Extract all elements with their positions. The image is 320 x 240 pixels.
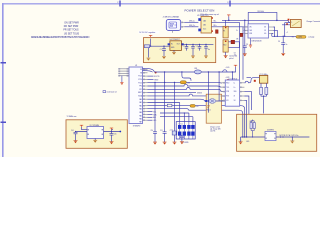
svg-text:C9: C9 [278, 41, 280, 43]
power mux U3 [248, 24, 269, 38]
svg-text:C14: C14 [71, 130, 74, 132]
MCU U1 [129, 67, 143, 124]
net flag pill +CHG [296, 36, 306, 39]
ground under C11 [163, 142, 167, 145]
svg-text:+2: +2 [286, 32, 288, 34]
svg-text:reset boot sel: reset boot sel [107, 91, 118, 94]
svg-text:D+: D+ [234, 87, 236, 89]
svg-text:VDD: VDD [234, 91, 237, 93]
svg-text:DO SET PWR: DO SET PWR [64, 26, 79, 28]
ground under C1 [162, 56, 166, 59]
USB bridge U2 [225, 80, 239, 106]
svg-text:VD: VD [140, 69, 142, 71]
cap C8 on VBUS [243, 20, 247, 54]
comparator Q1 [209, 99, 216, 104]
svg-text:PR SET TOUS: PR SET TOUS [63, 29, 79, 31]
VBUS top wire [222, 20, 290, 22]
cap column drops [155, 72, 191, 132]
svg-text:C10: C10 [151, 130, 154, 132]
svg-text:PC15: PC15 [138, 82, 142, 84]
+5V flag red [234, 65, 237, 67]
svg-text:4u7: 4u7 [234, 54, 237, 56]
svg-text:C4: C4 [196, 45, 198, 47]
U3 left pins [244, 27, 248, 34]
svg-text:+5V0: +5V0 [226, 67, 230, 69]
wire USB D+ [185, 26, 199, 28]
svg-text:PC14: PC14 [138, 79, 142, 81]
svg-text:OUT: OUT [177, 44, 180, 46]
power flag red in osc box [80, 125, 83, 127]
resistor R2 pill [180, 81, 186, 84]
svg-text:GND: GND [246, 141, 249, 143]
ground under R10 [225, 52, 227, 56]
charge connector J2 [290, 20, 301, 28]
wire D+ down to U2 [242, 27, 244, 80]
fuse F1 [223, 26, 228, 38]
svg-text:F1: F1 [223, 31, 225, 33]
svg-text:PC13: PC13 [138, 76, 142, 78]
U3 output wires [272, 27, 296, 36]
reset note label [103, 91, 106, 93]
svg-text:10u: 10u [208, 49, 211, 51]
ground right in servo box [291, 137, 293, 141]
svg-text:R5 0.1: R5 0.1 [207, 110, 211, 112]
svg-text:RTS: RTS [226, 96, 229, 98]
wire X2 right [104, 130, 120, 132]
wire U6 out [276, 136, 309, 138]
feedback loop R8 [248, 12, 277, 23]
crystal Y1 [259, 75, 267, 83]
fuse red marks [225, 27, 227, 28]
header cluster drops [148, 103, 193, 122]
svg-text:C8: C8 [246, 44, 248, 46]
wire VIN down [150, 39, 152, 47]
svg-text:USB_D-: USB_D- [189, 21, 195, 23]
short stub wires with labels [148, 75, 154, 77]
+5V rail wire [154, 67, 235, 80]
U2 left pins [221, 83, 226, 101]
svg-text:R6R7: R6R7 [250, 121, 254, 123]
comparator wires [205, 100, 226, 102]
sheet background [0, 0, 320, 157]
servo wires into box [241, 114, 265, 137]
red flag near box top [251, 118, 254, 120]
svg-text:+: + [241, 139, 242, 141]
wire VIN to D1 stub [147, 48, 149, 58]
VIN power flag red [149, 35, 152, 37]
header J3 2x4 [176, 122, 195, 139]
notes text block [31, 22, 90, 39]
wire U1 TX to U2 [148, 84, 226, 87]
svg-text:J3 SWD: J3 SWD [183, 142, 189, 144]
input diode D1 [144, 45, 149, 48]
svg-text:SWDIO: SWDIO [197, 93, 203, 95]
wire servo sig 2 [148, 109, 243, 137]
wire input rail [150, 45, 170, 47]
cap C3 [191, 44, 195, 56]
USB pin stubs [173, 22, 185, 33]
cap C4 [198, 44, 202, 50]
svg-text:220: 220 [196, 106, 199, 108]
wire charge into J2 [282, 23, 290, 37]
svg-text:2B 5: 2B 5 [203, 25, 206, 27]
svg-text:3C 4: 3C 4 [203, 29, 206, 31]
svg-text:ON SET PWR: ON SET PWR [64, 22, 79, 24]
wire D- out [212, 21, 240, 23]
crystal red mark [254, 80, 256, 82]
svg-text:TXD: TXD [226, 87, 229, 89]
3V3 rail wire [148, 82, 222, 83]
svg-text:MAKE SURE USB REGULATOR PHOTO: MAKE SURE USB REGULATOR PHOTO PIN THE OU… [31, 36, 90, 39]
cap C10 [153, 132, 157, 142]
ground under C15 [110, 142, 114, 145]
svg-text:RXD: RXD [226, 82, 229, 84]
USB connector J1 [166, 19, 180, 30]
svg-text:+C12: +C12 [170, 130, 174, 132]
svg-text:US SET TOUS: US SET TOUS [64, 33, 80, 35]
cap C1 [162, 46, 166, 56]
wire U2 XI to crystal [244, 77, 259, 82]
U1 top-right loop to +5V [143, 68, 155, 72]
oscillator section box [66, 120, 127, 149]
U2 pin names [226, 82, 236, 102]
load cap CL1 [260, 87, 263, 94]
U1 left top pins [120, 69, 130, 76]
out ticks [281, 136, 283, 138]
svg-text:C2: C2 [183, 45, 185, 47]
regulator U4 [170, 41, 182, 51]
wire USB D- [185, 21, 199, 23]
border zone tick left 1 [1, 62, 7, 64]
load cap CL2 [265, 87, 268, 94]
svg-text:C8: C8 [234, 53, 236, 55]
ground under C9 [281, 53, 285, 56]
svg-text:R8 100k: R8 100k [258, 11, 264, 13]
svg-text:6 S: 6 S [264, 27, 266, 29]
wire fuse top to VBUS [225, 20, 227, 26]
svg-text:STM32F0: STM32F0 [133, 125, 140, 127]
svg-text:1u: 1u [286, 44, 288, 46]
sheet left border [2, 3, 4, 157]
wire output rail [181, 43, 213, 45]
wire D+ out [212, 26, 249, 28]
servo section box [237, 114, 317, 151]
U1 pin name smudges [138, 69, 142, 123]
wire U1 pin stub label [148, 92, 197, 94]
svg-text:VB: VB [140, 72, 142, 74]
resistor R10 below fuse [223, 40, 228, 52]
svg-text:C1: C1 [160, 49, 162, 51]
svg-text:BOOT0: BOOT0 [154, 76, 159, 78]
cap C9 [281, 36, 285, 53]
ground under C13 [180, 142, 184, 145]
svg-text:PF1: PF1 [139, 89, 142, 91]
svg-text:FB1: FB1 [195, 68, 198, 70]
svg-text:5V DC-DC regulator: 5V DC-DC regulator [139, 31, 155, 34]
power flag red right [110, 128, 113, 130]
svg-text:POWER SELECTION: POWER SELECTION [185, 8, 215, 12]
svg-text:5 S: 5 S [264, 30, 266, 32]
cap C15 [110, 132, 114, 142]
USB filter U5 [201, 17, 212, 34]
cap C13 [180, 135, 184, 142]
resistor R3 pill [190, 105, 195, 108]
brown marks under Q1 [208, 105, 210, 106]
regulator section box [144, 38, 216, 63]
svg-text:NRST: NRST [154, 79, 158, 81]
svg-text:1 2 3 4: 1 2 3 4 [179, 123, 183, 125]
svg-text:USB_D+: USB_D+ [189, 25, 195, 27]
charge connector J2 power flag [288, 19, 290, 21]
svg-text:IN: IN [171, 44, 173, 46]
ferrite bead FB1 [194, 70, 201, 74]
sheet top border [2, 3, 320, 4]
svg-text:C11: C11 [160, 130, 163, 132]
wire U1 sense to comparator [148, 99, 205, 101]
svg-text:+Charge: +Charge [308, 36, 315, 39]
border zone tick top 1 [119, 1, 120, 7]
ground under C3 [191, 56, 195, 59]
regulator note strip [139, 31, 160, 34]
wire U1 RX to U2 [148, 88, 226, 92]
X2 inner pins [87, 129, 103, 135]
ground under C14 [74, 141, 78, 144]
resonator X2 [87, 127, 104, 139]
LED D3 loop [229, 42, 240, 48]
svg-text:J1 MICRO-USB AB: J1 MICRO-USB AB [163, 16, 180, 19]
svg-text:RD+: RD+ [214, 25, 217, 27]
svg-text:4 G: 4 G [264, 33, 266, 35]
ground under C10 [153, 142, 157, 145]
crystal cap wires [261, 83, 266, 113]
ground under C5 [204, 56, 208, 59]
svg-text:NRST: NRST [138, 92, 142, 94]
wire D- down to U2 [238, 22, 240, 80]
border zone tick left 2 [1, 122, 7, 124]
cap C11 [163, 132, 167, 142]
svg-text:10k: 10k [187, 82, 190, 84]
U1 right pins [143, 70, 148, 121]
wire servo sig 1 [148, 106, 245, 137]
small parts R6 R7 [250, 123, 252, 129]
diode red on charge wire [286, 23, 288, 25]
svg-text:DMG2305UX: DMG2305UX [252, 41, 263, 43]
border zone tick top 2 [229, 1, 230, 7]
cap C12 electrolytic [172, 131, 177, 135]
svg-text:RD-: RD- [214, 21, 217, 23]
crystal red part below wire [216, 30, 219, 34]
svg-text:C15: C15 [114, 134, 117, 136]
lower stub labels [148, 111, 153, 113]
power flag red VBUS [228, 17, 230, 21]
wire X2 left [76, 127, 88, 132]
svg-text:1 IN: 1 IN [249, 27, 252, 29]
cap C14 [74, 132, 78, 141]
U2 right pins [240, 83, 245, 101]
comparator section box [206, 94, 221, 123]
svg-text:3 SB: 3 SB [249, 33, 252, 35]
svg-text:Y2 8MHz osc: Y2 8MHz osc [67, 116, 77, 118]
ESD diode D2 [240, 33, 243, 36]
svg-text:R10: R10 [223, 45, 226, 47]
comparator wire vertical [208, 72, 219, 113]
X2 gnd stub [94, 139, 96, 141]
regulator gnd stub [173, 50, 175, 52]
svg-text:Charge Connection: Charge Connection [306, 20, 320, 23]
LED D3 [231, 40, 235, 44]
jumper JP1 on wire [167, 104, 172, 107]
ground under C8 [243, 54, 247, 57]
svg-text:+CHG: +CHG [297, 37, 302, 39]
svg-text:2 GD: 2 GD [249, 30, 252, 32]
U2 right lower wires down [244, 92, 251, 137]
power flag red left of U1 [121, 76, 123, 83]
VBUS junctions [228, 20, 278, 22]
svg-text:PF0: PF0 [139, 86, 142, 88]
U5 right red marks [212, 17, 213, 18]
cap C2 [185, 44, 189, 50]
power flag red at U3 pin [250, 38, 252, 45]
U3 right pins [269, 27, 274, 34]
ground under D1 [146, 58, 150, 61]
svg-text:VB: VB [236, 39, 238, 41]
cap C5 [204, 44, 208, 56]
driver U6 [265, 131, 276, 140]
svg-text:DTR: DTR [226, 91, 229, 93]
ground under C12 [173, 142, 177, 145]
ground left in servo box [240, 137, 242, 142]
wire U1 DTR to U2 [148, 94, 226, 96]
